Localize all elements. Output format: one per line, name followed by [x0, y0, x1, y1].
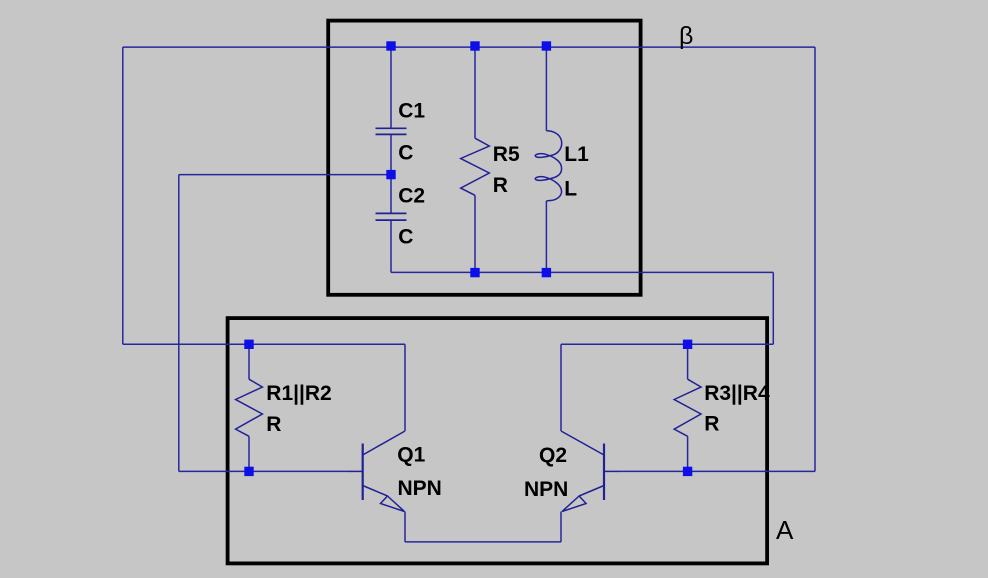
node bottom L1: [542, 268, 551, 277]
svg-text:C: C: [398, 142, 413, 165]
resistor R1R2: [236, 379, 263, 436]
capacitor C1: [376, 128, 407, 134]
wire Q2 emitter vertical: [560, 512, 562, 542]
svg-text:Q1: Q1: [397, 444, 425, 467]
svg-text:A: A: [776, 515, 794, 545]
wire into R1R2 bottom node: [179, 470, 249, 472]
node mid C1C2: [386, 170, 395, 179]
wire R3R4 bottom lead: [687, 436, 689, 471]
wire C2 bottom lead: [390, 220, 392, 272]
svg-text:R: R: [493, 174, 508, 197]
svg-text:L: L: [564, 178, 577, 201]
svg-text:R5: R5: [493, 143, 520, 166]
svg-text:β: β: [679, 22, 693, 50]
svg-text:NPN: NPN: [398, 477, 442, 500]
svg-text:Q2: Q2: [539, 444, 567, 467]
wire right rise: [814, 47, 816, 471]
wire mid tap horizontal: [179, 174, 391, 176]
wire Q1 emitter vertical: [404, 512, 406, 542]
node top L1: [542, 41, 551, 50]
wire R3R4 top to Q2 collector: [561, 343, 688, 345]
node top R5: [470, 41, 479, 50]
capacitor C2: [376, 213, 407, 220]
wire Q1 collector vertical: [404, 344, 406, 431]
wire C1 top lead: [390, 47, 392, 128]
svg-text:C2: C2: [398, 184, 425, 207]
svg-text:C1: C1: [398, 100, 425, 123]
node top C: [386, 41, 395, 50]
wire mid node to C2 top: [390, 175, 392, 214]
wire Q1 base: [249, 470, 349, 472]
inductor L1: [535, 131, 561, 201]
svg-text:C: C: [398, 225, 413, 248]
wire top rail: [123, 46, 815, 48]
wire R1R2 top to Q1 collector: [249, 343, 405, 345]
svg-text:R1||R2: R1||R2: [266, 382, 331, 405]
wire left into box: [123, 343, 249, 345]
wire bottom rail: [391, 271, 773, 273]
box beta network (top block): [328, 21, 640, 295]
svg-text:R: R: [704, 413, 719, 436]
wire R3R4 top lead: [687, 344, 689, 379]
box amplifier A (bottom block): [228, 318, 768, 563]
wire L1 bottom lead: [545, 201, 547, 273]
wire R3R4 bottom node to right: [688, 470, 815, 472]
wire C1 bottom to mid node: [390, 134, 392, 174]
wire right drop outer: [772, 272, 774, 344]
node R1R2 top: [244, 340, 253, 349]
wire Q2 collector vertical: [560, 344, 562, 431]
node R3R4 top: [683, 340, 692, 349]
node bottom R5: [470, 268, 479, 277]
wire R1R2 bottom lead: [248, 436, 250, 471]
wire mid-left drop: [178, 175, 180, 472]
svg-text:R: R: [266, 413, 281, 436]
node R1R2 bottom: [244, 467, 253, 476]
resistor R3R4: [674, 379, 701, 436]
wire left drop: [122, 47, 124, 344]
wire R1R2 top lead: [248, 344, 250, 379]
transistor Q2: [561, 431, 618, 512]
svg-text:L1: L1: [564, 143, 589, 166]
wire into R3R4 top node: [688, 343, 774, 345]
wire R5 bottom lead: [474, 195, 476, 272]
resistor R5: [461, 138, 490, 195]
svg-text:R3||R4: R3||R4: [704, 382, 770, 405]
wire R5 top lead: [474, 47, 476, 138]
wire L1 top lead: [545, 47, 547, 131]
wire emitter bottom link: [405, 541, 561, 543]
node R3R4 bottom: [683, 467, 692, 476]
wire Q2 base: [618, 470, 688, 472]
transistor Q1: [349, 431, 406, 512]
svg-text:NPN: NPN: [524, 478, 568, 501]
